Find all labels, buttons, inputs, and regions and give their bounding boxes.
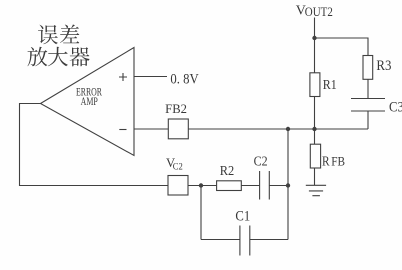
- junction VOUT2 dot: [312, 36, 316, 40]
- wire FB2 to node X and divider: [188, 128, 368, 130]
- svg-text:AMP: AMP: [81, 94, 98, 108]
- svg-text:C3: C3: [389, 100, 402, 116]
- svg-text:C2: C2: [173, 162, 183, 173]
- resistor RFB top lead: [314, 129, 316, 144]
- ground: [306, 185, 326, 195]
- junction node Y dot: [286, 183, 290, 187]
- block VC2: [168, 176, 188, 196]
- block FB2: [168, 119, 188, 139]
- svg-text:C1: C1: [235, 208, 250, 224]
- wire bottom C1 branch left: [201, 239, 240, 241]
- wire R1 top lead: [314, 38, 316, 73]
- junction node Z dot: [199, 183, 203, 187]
- char 差: [60, 25, 79, 44]
- wire inverting input to FB2: [134, 128, 168, 130]
- wire R1 bottom lead: [314, 97, 316, 130]
- svg-text:FB2: FB2: [165, 102, 187, 116]
- wire C2 to node Y: [269, 185, 288, 187]
- wire noninverting input to 0.8V: [134, 76, 167, 78]
- wire R2 to C2: [241, 185, 259, 187]
- resistor R1: [310, 73, 320, 97]
- capacitor C2: [260, 171, 270, 200]
- resistor R3: [363, 56, 373, 80]
- char 误: [38, 25, 58, 45]
- resistor RFB: [310, 144, 320, 168]
- op-amp U1 triangle: [41, 48, 135, 156]
- wire VOUT2 node to R3 branch: [315, 38, 369, 56]
- svg-text:R: R: [322, 155, 330, 170]
- svg-text:R1: R1: [323, 77, 337, 92]
- wire VOUT2 lead: [314, 18, 316, 39]
- wire node X down leg: [287, 129, 289, 240]
- char 放: [28, 47, 48, 67]
- svg-text:OUT2: OUT2: [305, 5, 333, 19]
- wire VC2 to node Z: [188, 185, 217, 187]
- svg-text:R2: R2: [220, 163, 235, 178]
- capacitor C3: [351, 99, 385, 112]
- junction node X dot: [286, 127, 290, 131]
- svg-text:FB: FB: [331, 155, 345, 169]
- svg-text:R3: R3: [376, 58, 391, 74]
- wire C3 bottom lead: [367, 111, 369, 129]
- op-amp minus input marker: [119, 129, 126, 131]
- char 器: [70, 47, 90, 66]
- wire R3 to C3: [367, 79, 369, 98]
- svg-text:0. 8V: 0. 8V: [170, 72, 199, 88]
- wire RFB to ground: [314, 168, 316, 185]
- op-amp plus input marker: [119, 73, 127, 81]
- wire op-amp output feedback: [20, 104, 169, 186]
- capacitor C1: [240, 226, 250, 256]
- char 大: [48, 47, 68, 67]
- svg-text:C2: C2: [254, 154, 268, 169]
- resistor R2: [217, 181, 242, 191]
- wire bottom C1 branch right: [250, 239, 288, 241]
- wire node Z down leg: [200, 186, 202, 240]
- junction R1-RFB dot: [312, 127, 316, 131]
